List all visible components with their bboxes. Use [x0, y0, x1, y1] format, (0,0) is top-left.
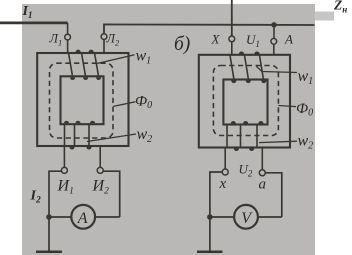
wire voltmeter to right branch	[258, 216, 282, 218]
terminal И1	[61, 167, 67, 173]
transformer T2 core outer	[199, 55, 290, 148]
svg-text:X: X	[211, 32, 221, 47]
wire A drop	[273, 25, 275, 39]
svg-text:A: A	[77, 210, 88, 227]
winding w1 T1 bumps on outer edge	[76, 50, 94, 53]
winding w1 T2 turns	[230, 55, 264, 79]
node junction V branch	[207, 214, 213, 220]
wire a to right branch	[265, 173, 282, 217]
terminal A	[271, 38, 277, 44]
winding w1 T2 bumps on inner edge	[231, 81, 266, 84]
svg-text:a: a	[259, 177, 267, 193]
node A junction	[271, 22, 276, 27]
wire Л1 drop	[67, 23, 69, 35]
wire A to core	[273, 44, 275, 55]
wire I1 rail	[0, 21, 68, 24]
ground right	[197, 251, 223, 254]
ammeter A1	[71, 205, 95, 229]
winding w2 T2 turns	[227, 125, 257, 148]
wire x lead	[224, 148, 226, 170]
terminal X	[229, 36, 235, 42]
pointer to w1 label T1	[97, 55, 135, 64]
terminal Л2	[101, 34, 107, 40]
voltmeter V1	[234, 205, 258, 229]
transformer T1 core inner	[61, 76, 104, 124]
wire И1 to left branch down	[49, 171, 61, 252]
wire ammeter to right branch	[95, 216, 120, 218]
flux path Φ0 dashed T2	[213, 66, 278, 136]
wire junction to ammeter	[49, 216, 71, 218]
terminal x	[222, 169, 228, 175]
pointer to w2 label T1	[87, 134, 136, 142]
terminal И2	[97, 167, 103, 173]
winding w1 T1 turns	[69, 53, 99, 76]
svg-text:x: x	[219, 176, 227, 192]
svg-text:A: A	[284, 32, 293, 47]
pointer to w1 label T2	[256, 66, 297, 73]
transformer T1 core outer	[37, 53, 128, 146]
winding w1 T2 bumps on outer edge	[239, 51, 260, 54]
pointer to w2 label T2	[259, 141, 297, 142]
wire И2 to right branch	[103, 171, 120, 217]
transformer T2 core inner	[223, 80, 267, 125]
ground left	[36, 251, 62, 254]
pointer to Φ0 label T2	[278, 106, 296, 107]
flux path Φ0 dashed T1	[50, 63, 114, 138]
winding w2 T2 bumps on outer edge	[234, 148, 255, 151]
winding w2 T2 bumps on inner edge	[231, 121, 264, 124]
node I2 junction	[46, 214, 52, 220]
wire supply drop	[231, 0, 233, 36]
terminal Л1	[65, 34, 71, 40]
terminal a	[259, 170, 265, 176]
wire Л1 to core	[67, 40, 69, 54]
winding w2 T1 bumps on outer edge	[69, 147, 91, 150]
wire И2 lead	[99, 146, 101, 168]
wire junction to voltmeter	[210, 216, 235, 218]
wire Л2 to core	[103, 40, 105, 54]
wire X to core	[231, 42, 233, 55]
pointer to Φ0 label T1	[113, 102, 135, 107]
winding w2 T1 bumps on inner edge	[64, 121, 95, 124]
winding w2 T1 turns	[65, 124, 90, 146]
wire top rail right	[104, 24, 315, 33]
winding w1 T1 bumps on inner edge	[70, 77, 101, 80]
wire x to left branch down	[210, 172, 222, 252]
wire И1 lead	[63, 146, 65, 168]
scan tab near Zн	[315, 12, 334, 21]
svg-text:б): б)	[174, 34, 190, 55]
wire a lead	[261, 148, 263, 170]
